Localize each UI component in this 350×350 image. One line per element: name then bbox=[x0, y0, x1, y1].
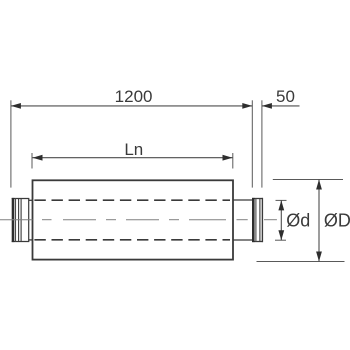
left spigot bead cap bbox=[12, 198, 30, 242]
arrowhead 1200 left bbox=[11, 103, 21, 109]
Od extension tick top bbox=[276, 199, 287, 201]
arrowhead Od down bbox=[278, 230, 284, 240]
svg-text:50: 50 bbox=[276, 87, 295, 106]
dimension line Od bbox=[280, 200, 282, 240]
hidden inner-duct line bottom (dashed) bbox=[34, 239, 230, 241]
svg-text:Ln: Ln bbox=[124, 140, 143, 159]
extension line left of 1200 dimension bbox=[10, 100, 12, 187]
hidden inner-duct line top (dashed) bbox=[34, 199, 230, 201]
svg-text:1200: 1200 bbox=[115, 87, 153, 106]
OD extension line top bbox=[273, 179, 343, 181]
arrowhead 1200 right / 50 outside left bbox=[242, 103, 252, 109]
arrowhead OD up bbox=[316, 180, 322, 190]
dimension line OD bbox=[318, 180, 320, 262]
centre line right of spigot bbox=[264, 219, 277, 221]
svg-text:Ød: Ød bbox=[286, 211, 310, 231]
centre line through left spigot bbox=[0, 219, 33, 221]
arrowhead OD down bbox=[316, 252, 322, 262]
silencer body outline bbox=[33, 180, 234, 259]
centre line chain inside body bbox=[42, 219, 226, 221]
arrowhead Ln left bbox=[33, 155, 43, 161]
Ln extension tick right bbox=[232, 153, 234, 169]
Od extension tick bottom bbox=[275, 239, 286, 241]
extension line shared 1200/50 bbox=[251, 100, 253, 187]
right spigot tube bbox=[233, 200, 253, 240]
centre line through right spigot bbox=[237, 219, 248, 221]
extension line right of 50 dimension bbox=[261, 100, 263, 187]
Ln extension tick left bbox=[31, 153, 33, 169]
right spigot bead cap bbox=[252, 198, 263, 242]
dimension line 1200 bbox=[11, 105, 252, 107]
dimension tail line 50 bbox=[262, 105, 300, 107]
OD extension line bottom bbox=[257, 261, 345, 263]
arrowhead 50 (outside right, pointing left) bbox=[262, 103, 272, 109]
arrowhead Od up bbox=[278, 200, 284, 210]
arrowhead Ln right bbox=[223, 155, 233, 161]
dimension line Ln bbox=[33, 157, 233, 159]
svg-text:ØD: ØD bbox=[324, 211, 350, 231]
left spigot tube bbox=[29, 200, 33, 240]
